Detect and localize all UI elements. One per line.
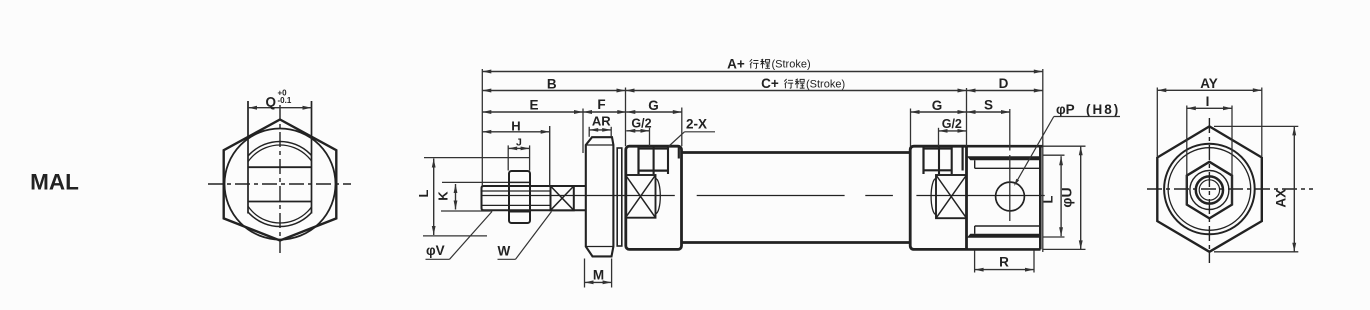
svg-text:G/2: G/2 — [942, 117, 962, 131]
extension G/2 front port center — [649, 128, 651, 146]
dimension H — [482, 131, 549, 133]
svg-text:MAL: MAL — [30, 170, 79, 195]
dimension D — [967, 90, 1043, 92]
svg-text:(Stroke): (Stroke) — [772, 59, 811, 71]
right view nut inscribed circle — [1190, 171, 1229, 210]
rear port boss — [922, 147, 924, 175]
dimension phiU — [1080, 146, 1082, 249]
rear block top groove — [967, 156, 1039, 160]
svg-text:F: F — [597, 97, 605, 112]
svg-text:(H8): (H8) — [1086, 102, 1120, 117]
dimension R — [975, 269, 1034, 271]
left view wrench flat right — [311, 101, 313, 214]
svg-text:AY: AY — [1200, 76, 1218, 91]
phi P hole circle — [996, 182, 1025, 211]
left view flat top edge — [248, 166, 312, 168]
dimension B — [482, 90, 625, 92]
left view body circle — [225, 129, 336, 240]
front port hole arc — [656, 179, 661, 214]
svg-text:2-X: 2-X — [686, 117, 707, 132]
extension H right — [549, 126, 551, 186]
svg-text:E: E — [529, 98, 538, 113]
dimension M — [585, 281, 612, 283]
dimension S — [967, 111, 1011, 113]
front port symbol box — [626, 175, 656, 218]
right view inner circle — [1168, 148, 1251, 231]
svg-text:I: I — [1206, 94, 1210, 109]
extension C/D head-block face — [966, 88, 968, 146]
svg-text:B: B — [547, 76, 557, 91]
svg-text:H: H — [511, 118, 520, 133]
svg-text:G/2: G/2 — [631, 117, 651, 131]
left view centerline vertical — [279, 105, 281, 253]
svg-text:φP: φP — [1056, 102, 1075, 117]
svg-text:φU: φU — [1059, 187, 1075, 207]
dimension J — [508, 147, 529, 149]
extension A+/D right lower — [1042, 146, 1044, 252]
svg-text:AR: AR — [592, 113, 611, 128]
svg-text:A+: A+ — [727, 56, 745, 71]
phi P hole vertical centerline — [1009, 109, 1011, 151]
svg-text:W: W — [498, 244, 511, 259]
svg-text:S: S — [984, 98, 993, 113]
svg-text:-0.1: -0.1 — [278, 96, 292, 105]
svg-text:Q: Q — [265, 95, 276, 110]
extension right end — [1042, 69, 1044, 146]
right view centerline vertical — [1208, 118, 1210, 263]
rod wrench flats box W — [551, 186, 574, 210]
svg-text:G: G — [648, 98, 659, 113]
front head — [626, 146, 682, 249]
svg-text:(Stroke): (Stroke) — [806, 78, 845, 90]
front port boss — [637, 147, 639, 175]
dimension AY — [1157, 89, 1262, 91]
svg-text:L: L — [416, 189, 431, 197]
extension G rear left — [910, 109, 912, 147]
svg-text:G: G — [932, 98, 943, 113]
extension G right head face — [681, 108, 683, 147]
dimension AX — [1293, 126, 1295, 251]
svg-text:J: J — [516, 137, 522, 149]
right view hex cap — [1157, 126, 1262, 251]
dimension G/2 front — [626, 130, 649, 132]
rear head — [910, 146, 966, 249]
dimension G/2 rear — [939, 130, 967, 132]
dimension I — [1187, 107, 1232, 109]
dimension Q — [248, 107, 312, 109]
dimension C+ stroke — [626, 90, 967, 92]
dimension G front — [626, 111, 682, 113]
piston rod threaded — [482, 186, 587, 210]
extension B/C — [625, 88, 627, 147]
svg-text:R: R — [999, 254, 1009, 269]
dimension L left — [433, 159, 435, 236]
left view hex body — [224, 120, 337, 241]
rear port symbol box — [936, 175, 967, 218]
rear block bottom groove — [967, 234, 1039, 238]
svg-text:D: D — [999, 76, 1009, 91]
right view outer circle — [1164, 144, 1255, 235]
svg-text:AX: AX — [1273, 189, 1288, 208]
svg-text:φV: φV — [426, 243, 445, 258]
rod thread root lines — [483, 190, 551, 192]
left view centerline horizontal — [208, 183, 351, 185]
right view rod circle — [1196, 176, 1223, 203]
left view flat bottom edge — [248, 201, 312, 203]
washer — [617, 148, 622, 246]
svg-text:M: M — [593, 267, 604, 282]
extension E/F — [582, 109, 584, 154]
dimension K — [455, 184, 457, 210]
dimension A+ stroke — [482, 71, 1043, 73]
mounting nut AR — [586, 137, 614, 256]
extension A+ left — [481, 69, 483, 186]
left view wrench flat left — [247, 101, 249, 214]
dimension F — [583, 111, 626, 113]
right view rod nut hex — [1187, 162, 1232, 219]
extension G/2 rear port center — [938, 128, 940, 146]
dimension AR — [589, 129, 611, 131]
svg-text:C+: C+ — [761, 76, 779, 91]
dimension E — [482, 111, 583, 113]
rear block outline — [965, 146, 968, 249]
right view centerline horizontal — [1147, 188, 1313, 190]
main axis centerline — [481, 195, 675, 197]
dimension G rear — [911, 111, 967, 113]
svg-text:K: K — [436, 191, 451, 201]
cylinder tube — [682, 151, 911, 154]
rear port hole arc — [931, 179, 936, 215]
dimension L rear — [1060, 156, 1062, 236]
rod nut — [509, 171, 530, 223]
rear block inner lines — [975, 167, 1039, 169]
